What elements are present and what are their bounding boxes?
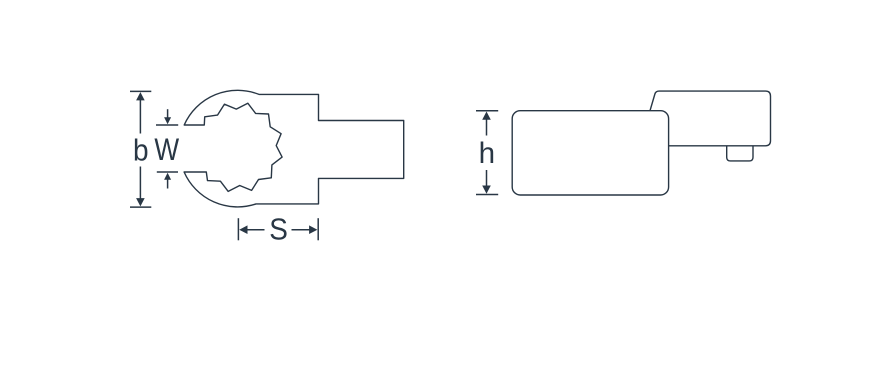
svg-text:b: b xyxy=(133,135,149,168)
svg-text:S: S xyxy=(269,212,288,247)
svg-text:W: W xyxy=(154,133,179,168)
svg-text:h: h xyxy=(479,137,495,170)
